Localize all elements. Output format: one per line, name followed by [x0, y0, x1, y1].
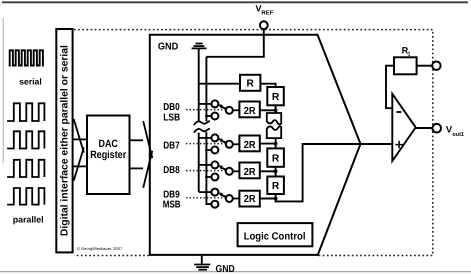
- feedback wire to R1: [386, 66, 394, 109]
- bus arrow bar to DAC register: [73, 119, 87, 181]
- switch S9 wires: [199, 191, 212, 193]
- resistor R1 ladder: [267, 87, 284, 105]
- bottom ground stub: [201, 256, 203, 264]
- svg-text:2R: 2R: [244, 106, 256, 117]
- svg-text:parallel: parallel: [13, 215, 44, 225]
- wire 2R to ladder: [260, 109, 276, 111]
- resistor R2 ladder: [267, 148, 284, 166]
- op-amp plus: [395, 144, 402, 146]
- output pin: [432, 124, 441, 133]
- ladder break band 1: [267, 113, 281, 124]
- GND rail (left): [198, 48, 200, 121]
- wire 2R to ladder: [260, 143, 276, 145]
- wire: [275, 167, 277, 177]
- wire 2R to ladder: [260, 170, 276, 172]
- switch S0 contacts: [211, 100, 218, 107]
- switch S9 wiper: [221, 195, 226, 197]
- parallel waveform 2: [7, 131, 44, 148]
- svg-text:DB8: DB8: [163, 165, 180, 176]
- svg-text:R: R: [272, 92, 280, 103]
- switch S0 wiper: [221, 107, 226, 109]
- ladder output wire to op-amp: [260, 144, 393, 201]
- switch S7 wiper: [221, 141, 226, 143]
- dotted leader DB8: [186, 170, 226, 172]
- op-amp U1: [392, 94, 415, 161]
- svg-text:R: R: [272, 181, 280, 192]
- junction node: [274, 142, 278, 146]
- wire: [275, 105, 277, 113]
- svg-text:GND: GND: [158, 42, 178, 53]
- op-amp minus: [396, 111, 401, 113]
- DAC register box: [87, 116, 130, 195]
- svg-text:DB7: DB7: [163, 141, 180, 152]
- logic control box: [238, 223, 313, 246]
- VREF rail (right): [205, 57, 207, 122]
- wire: [275, 138, 277, 144]
- svg-text:DB0: DB0: [163, 102, 180, 113]
- wire R to ladder top: [260, 84, 275, 87]
- output wire: [416, 127, 433, 129]
- dotted package border: [74, 30, 433, 256]
- svg-text:© GeorgWiesbauer, 2007: © GeorgWiesbauer, 2007: [77, 246, 123, 251]
- DAC core block outline: [150, 35, 361, 255]
- switch S8 contacts: [211, 161, 218, 168]
- bit DB9: [163, 189, 278, 211]
- resistor 2R bit8: [239, 163, 259, 179]
- rail break squiggle upper: [194, 121, 210, 125]
- svg-text:LSB: LSB: [163, 112, 180, 123]
- frame left faint border: [2, 18, 4, 163]
- ground symbol bottom: [194, 265, 210, 270]
- junction node: [274, 169, 278, 173]
- switch S0 wires: [199, 103, 212, 105]
- dotted leader DB7: [186, 143, 226, 145]
- svg-text:R: R: [272, 153, 280, 164]
- switch S9 contacts: [211, 189, 218, 196]
- svg-text:Logic Control: Logic Control: [244, 231, 306, 242]
- feedback pin: [432, 61, 440, 69]
- dotted leader DB0: [186, 109, 226, 111]
- svg-text:serial: serial: [19, 77, 41, 87]
- svg-text:out1: out1: [452, 132, 464, 138]
- switch S8 wires: [199, 164, 212, 166]
- junction node: [274, 197, 278, 201]
- svg-text:2R: 2R: [244, 167, 256, 178]
- parallel waveform 1: [7, 103, 44, 121]
- switch S8 wiper: [221, 168, 226, 170]
- svg-text:Digital interface either paral: Digital interface either parallel or ser…: [59, 45, 70, 236]
- svg-text:2R: 2R: [244, 194, 256, 205]
- svg-text:2R: 2R: [244, 140, 256, 151]
- rail junction dots: [205, 103, 208, 106]
- dotted leader DB9: [186, 197, 226, 199]
- frame bottom faint border: [0, 271, 471, 273]
- junction node: [274, 108, 278, 112]
- ground symbol top (inverted): [192, 44, 207, 49]
- parallel waveform 4: [7, 188, 44, 205]
- bit DB7: [163, 134, 277, 153]
- parallel waveform 3: [7, 160, 44, 177]
- VREF feed wire: [206, 29, 263, 57]
- ladder break band 2: [267, 126, 281, 138]
- svg-text:REF: REF: [261, 9, 273, 16]
- svg-text:R: R: [247, 79, 255, 90]
- switch S7 wires: [199, 137, 212, 139]
- svg-text:GND: GND: [216, 264, 235, 274]
- wire R1 to pin: [417, 65, 433, 67]
- rail break squiggle lower: [194, 128, 210, 132]
- wire: [275, 144, 277, 149]
- resistor R3 ladder: [267, 177, 284, 195]
- svg-text:Register: Register: [90, 149, 126, 161]
- svg-text:MSB: MSB: [163, 200, 181, 211]
- resistor 2R bit9: [239, 191, 259, 207]
- switch S7 contacts: [211, 134, 218, 141]
- resistor 2R bit0: [239, 102, 259, 118]
- digital interface bar: [56, 29, 72, 252]
- bit DB8: [163, 161, 277, 180]
- resistor 2R bit7: [239, 136, 259, 152]
- resistor R (termination): [240, 75, 260, 91]
- frame top border: [2, 1, 468, 3]
- bus arrow DAC register to DAC core: [130, 121, 153, 188]
- serial waveform icon: [9, 50, 44, 65]
- termination resistor wire: [199, 83, 240, 85]
- bit DB0: [163, 100, 277, 123]
